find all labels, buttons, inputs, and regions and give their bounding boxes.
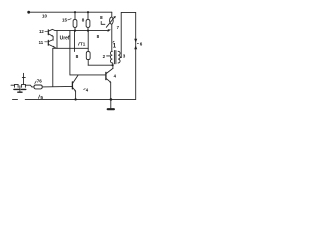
Q1 emitter [73,88,76,91]
Q2 emitter [106,78,111,82]
svg-text:12: 12 [39,29,44,34]
svg-text:4: 4 [114,73,117,78]
resistor R76 body [34,85,42,89]
label 76 [35,81,36,83]
transistor Q2 base bar [105,72,107,79]
label 5 [38,95,39,98]
wire [87,27,89,30]
wire emitter down [110,82,112,99]
wire bottom rail [25,98,136,100]
ground [110,99,112,108]
wire [87,60,89,66]
wire primary bottom [111,63,114,69]
wire [74,27,76,30]
transistor Q1 base bar [71,82,73,89]
resistor R15 body [73,20,77,28]
wire down to base row [52,48,54,86]
svg-text:3: 3 [123,54,126,59]
Q11 bar [47,40,49,45]
wire vertical [87,31,89,49]
current arrow up [134,45,137,49]
wire to collector node [88,64,113,66]
potentiometer P body [110,17,114,24]
wire vertical node C [74,31,76,52]
wire vertical node B [69,31,71,75]
svg-text:8: 8 [97,34,100,39]
pot arrow [106,18,114,28]
wire pot to transformer [111,24,113,51]
svg-text:7: 7 [117,25,120,30]
svg-text:8: 8 [82,17,85,22]
label 4 tick [84,88,86,91]
svg-text:T1: T1 [80,42,86,47]
label T1 [78,43,79,46]
Q12 collector [49,29,55,31]
resistor R8 body [86,20,90,28]
node dot [74,11,76,13]
crystal unit X1 top lead [23,73,25,84]
resistor R76 lead [32,86,34,88]
plate bar left [14,88,19,90]
svg-text:11: 11 [39,40,44,45]
svg-text:1: 1 [113,43,117,49]
resistor R8 lead [87,12,89,19]
transformer core [113,51,115,64]
node dot [87,11,89,13]
Q11 emitter [49,44,54,47]
left lead [11,84,15,86]
center bar [18,91,22,93]
node dot [87,30,89,32]
svg-text:8: 8 [100,15,103,21]
node + terminal dot top-left [27,11,30,14]
Q12 bar [47,30,49,35]
resistor Rc lead [87,48,89,51]
winding lead 2 [107,55,111,57]
svg-text:2: 2 [103,54,106,59]
wire to Q1 base [42,85,72,88]
wire base Q2 [70,74,106,76]
wire mid rail [55,30,108,32]
label 6 [137,42,138,44]
svg-text:5: 5 [40,95,43,101]
svg-text:4: 4 [86,88,89,93]
arrowhead into pot wiper [108,29,111,32]
diode Q12 lead tick [45,30,48,32]
Q11 collector [49,40,54,42]
terminal dash [13,99,18,101]
resistor R15 lead [74,12,76,19]
svg-text:15: 15 [62,17,68,22]
wire right branch up [121,12,136,99]
element left cup [15,84,19,87]
diode Q11 lead tick [45,41,48,43]
node dot [112,64,114,66]
wire between [52,36,54,40]
svg-text:Uref: Uref [60,36,70,42]
center stem [19,86,21,92]
Q2 collector [106,68,113,73]
transformer T secondary winding [118,51,120,63]
svg-text:6: 6 [140,41,143,46]
node dot [74,30,76,32]
wire top rail [29,11,112,13]
wire vertical node A [56,31,58,49]
wire [54,47,56,48]
transformer T primary winding [110,51,112,63]
svg-text:8: 8 [76,54,79,60]
capacitor plate [22,76,25,78]
lead tick [68,19,71,20]
winding lead 3 [120,56,121,58]
svg-text:10: 10 [42,13,47,18]
right lead [25,85,31,87]
wire row [53,47,88,49]
Q1 collector [73,75,78,83]
resistor Rc body [86,52,90,60]
Q12 emitter [49,34,53,36]
element right cup [22,84,26,87]
plate bar right [21,88,26,90]
wire emitter down [75,91,77,99]
current arrow down [134,39,137,43]
svg-text:76: 76 [37,78,43,83]
wire to pot [111,12,113,17]
node dot [74,98,76,100]
node dot [110,98,113,101]
